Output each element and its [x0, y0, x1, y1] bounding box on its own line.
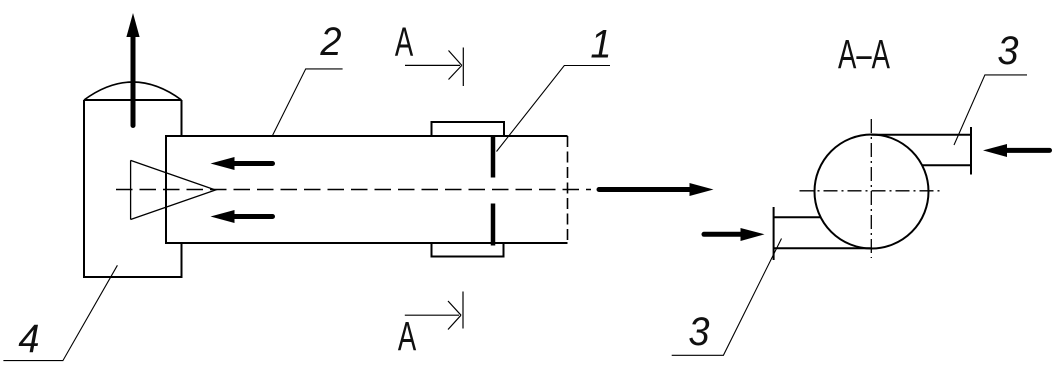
horizontal dash-dot centerline: [800, 190, 942, 192]
leader 3 top: [954, 75, 1027, 145]
arrow left lower (flow in duct): [211, 210, 273, 223]
svg-text:A: A: [398, 314, 417, 360]
svg-text:3: 3: [688, 310, 709, 354]
vertical dash-dot centerline: [870, 119, 872, 258]
leader 2: [273, 69, 343, 136]
nozzle triangle: [131, 160, 216, 219]
svg-text:1: 1: [590, 23, 611, 67]
flange bottom: [432, 243, 504, 257]
vessel 4 dome arc: [84, 82, 182, 100]
arrow into top inlet (pointing left): [983, 144, 1050, 157]
section mark A top: [405, 48, 463, 87]
duct 2 dashed right end: [567, 136, 569, 243]
leader 4: [3, 265, 117, 360]
svg-text:A: A: [395, 19, 414, 65]
duct 2 body: [166, 136, 568, 243]
cyclone circle: [815, 135, 929, 249]
section mark A bottom: [405, 292, 463, 330]
up arrow (outlet flow): [126, 13, 139, 126]
leader 1: [497, 66, 611, 152]
arrow into bottom inlet (pointing right): [704, 228, 765, 241]
arrow right main (outlet flow): [599, 183, 714, 196]
svg-text:2: 2: [319, 20, 341, 64]
damper 1 (thick plate segments): [491, 136, 496, 246]
vessel 4 body: [84, 100, 182, 277]
centerline (dashed axis): [116, 189, 591, 191]
inlet duct 3 bottom left: [774, 207, 872, 260]
svg-text:3: 3: [997, 29, 1018, 73]
svg-text:4: 4: [18, 317, 39, 361]
svg-text:A–A: A–A: [838, 32, 890, 78]
inlet duct 3 top right: [871, 127, 971, 175]
arrow left upper (flow in duct): [211, 157, 273, 170]
leader 3 bottom: [672, 239, 782, 356]
flange top: [432, 122, 505, 136]
